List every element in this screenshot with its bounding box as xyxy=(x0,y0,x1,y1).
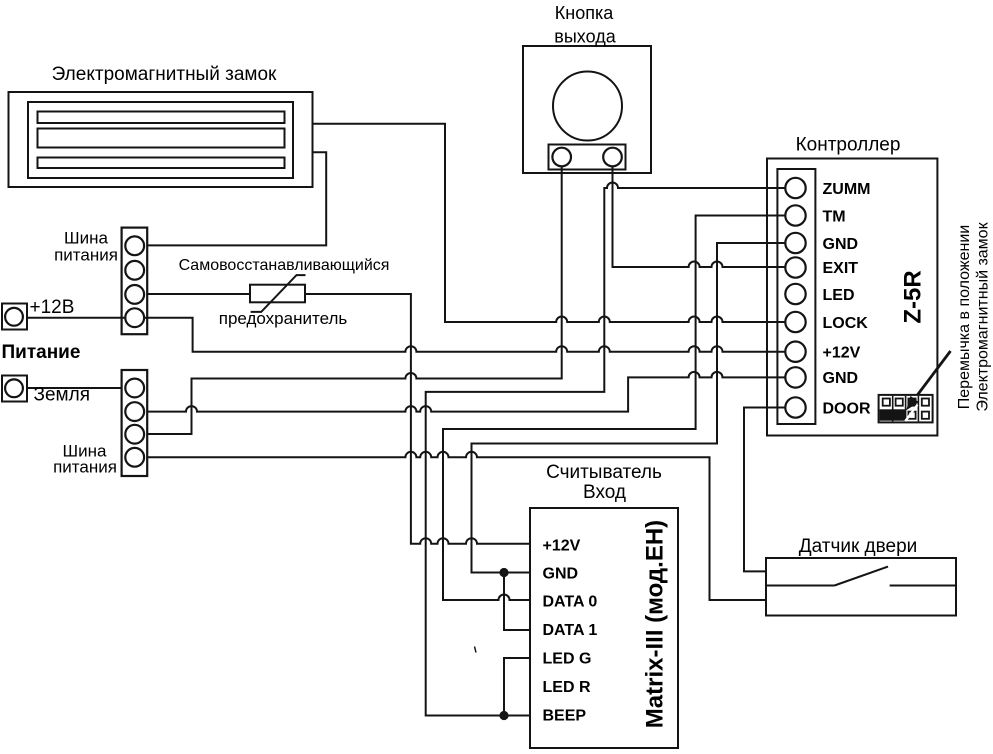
svg-text:BEEP: BEEP xyxy=(543,708,587,725)
exit button body xyxy=(523,46,651,173)
wire: fuse to reader +12V xyxy=(305,294,530,544)
power +12V terminal square xyxy=(2,304,27,330)
svg-text:предохранитель: предохранитель xyxy=(219,309,348,328)
svg-text:LED: LED xyxy=(823,287,855,304)
controller terminal labels xyxy=(823,181,871,417)
svg-text:+12V: +12V xyxy=(823,344,861,361)
svg-text:GND: GND xyxy=(543,566,579,583)
power bus block 2 xyxy=(122,370,148,476)
controller terminal circle TM xyxy=(785,205,805,225)
door sensor switch xyxy=(766,567,956,586)
wire: controller TM to reader DATA 0 xyxy=(443,216,786,601)
controller terminal circle LOCK xyxy=(785,312,805,332)
svg-text:TM: TM xyxy=(823,209,846,226)
svg-text:Электромагнитный замок: Электромагнитный замок xyxy=(52,64,277,85)
svg-text:выхода: выхода xyxy=(554,27,616,47)
+12V source circle xyxy=(5,308,23,326)
junction: reader GND / DATA 1 xyxy=(499,568,508,577)
svg-text:ZUMM: ZUMM xyxy=(823,181,871,198)
reader terminal labels xyxy=(543,538,598,725)
svg-text:Z-5R: Z-5R xyxy=(899,270,926,323)
svg-text:Кнопка: Кнопка xyxy=(555,3,614,23)
svg-text:GND: GND xyxy=(823,370,859,387)
wire: exit button to ground bus circle 3 xyxy=(147,166,562,434)
svg-text:LED G: LED G xyxy=(543,651,592,668)
wire: ground source to ground bus circle 1 xyxy=(27,387,123,389)
svg-text:DATA 0: DATA 0 xyxy=(543,594,598,611)
svg-text:+12В: +12В xyxy=(30,297,75,318)
wire: reader LED G to BEEP junction xyxy=(504,658,530,716)
jumper arrow line xyxy=(913,351,951,402)
svg-text:Земля: Земля xyxy=(34,385,90,406)
terminal circles xyxy=(5,148,806,476)
wire: controller ZUMM to reader BEEP xyxy=(426,183,786,716)
svg-text:Питание: Питание xyxy=(2,342,81,363)
controller terminal circle GND2 xyxy=(785,367,805,387)
svg-text:LED R: LED R xyxy=(543,679,591,696)
controller terminal circle ZUMM xyxy=(785,178,805,198)
controller terminal circle +12V xyxy=(785,342,805,362)
svg-text:питания: питания xyxy=(53,458,117,477)
svg-text:GND: GND xyxy=(823,236,859,253)
svg-text:Matrix-III (мод.ЕН): Matrix-III (мод.ЕН) xyxy=(641,520,668,728)
svg-text:Вход: Вход xyxy=(583,482,626,503)
controller terminal circle GND xyxy=(785,233,805,253)
junction: reader LED G / BEEP xyxy=(499,711,508,720)
exit button terminal circles xyxy=(552,148,571,167)
svg-text:DOOR: DOOR xyxy=(823,400,871,417)
wire: controller DOOR to door sensor xyxy=(744,408,786,572)
reader box xyxy=(530,508,678,748)
controller box xyxy=(767,159,937,436)
door sensor box xyxy=(766,558,956,616)
svg-text:DATA 1: DATA 1 xyxy=(543,622,598,639)
wire: reader GND branch to DATA 1 xyxy=(504,573,530,631)
svg-text:Перемычка в положении: Перемычка в положении xyxy=(956,225,973,409)
wire: +12V source to power bus circle 4 and controller +12V xyxy=(27,318,787,352)
electromagnetic lock body xyxy=(9,92,313,187)
svg-text:Электромагнитный замок: Электромагнитный замок xyxy=(975,221,992,411)
wire: lock(+) to controller LOCK xyxy=(313,124,786,322)
ground source circle xyxy=(5,379,23,397)
svg-text:Контроллер: Контроллер xyxy=(796,135,901,156)
fuse body xyxy=(250,275,306,312)
controller terminal circle DOOR xyxy=(785,397,805,417)
svg-text:Самовосстанавливающийся: Самовосстанавливающийся xyxy=(179,257,390,274)
svg-text:питания: питания xyxy=(54,246,118,265)
wire: ground bus circle 2 to controller GND xyxy=(147,372,786,412)
svg-text:+12V: +12V xyxy=(543,538,581,555)
svg-text:LOCK: LOCK xyxy=(823,315,869,332)
wire: power bus circle 3 to fuse xyxy=(147,293,250,295)
power ground terminal square xyxy=(2,376,27,402)
controller terminal circle LED xyxy=(785,284,805,304)
jumper block xyxy=(879,395,933,423)
svg-text:Датчик двери: Датчик двери xyxy=(799,536,918,557)
white slash along arrow xyxy=(905,405,917,421)
svg-text:Считыватель: Считыватель xyxy=(546,462,662,483)
wire: lock(-) to power bus circle 1 xyxy=(147,152,326,245)
svg-text:EXIT: EXIT xyxy=(823,260,859,277)
controller terminal circle EXIT xyxy=(785,257,805,277)
wire: ground bus circle 4 to door sensor xyxy=(147,452,766,600)
wire: exit button to controller EXIT xyxy=(613,166,787,267)
jumper arrow head xyxy=(906,396,919,410)
small stray mark xyxy=(475,647,477,653)
wire: controller GND to reader GND xyxy=(472,243,787,573)
power bus block 1 xyxy=(122,228,148,335)
